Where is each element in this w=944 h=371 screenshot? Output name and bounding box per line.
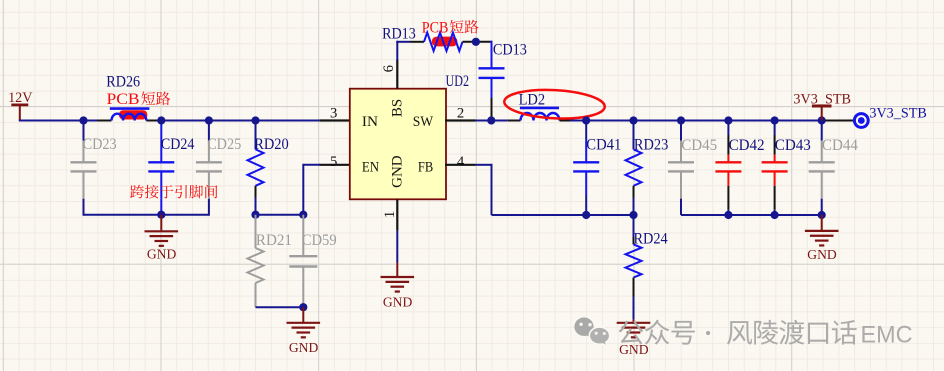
svg-text:CD43: CD43: [775, 137, 811, 154]
svg-text:PCB: PCB: [107, 91, 140, 108]
svg-text:3V3_STB: 3V3_STB: [793, 91, 851, 107]
svg-text:RD23: RD23: [634, 136, 669, 153]
svg-text:CD42: CD42: [729, 137, 765, 154]
svg-text:RD21: RD21: [256, 232, 292, 249]
svg-text:CD23: CD23: [83, 136, 117, 153]
svg-text:2: 2: [457, 106, 464, 122]
svg-text:GND: GND: [807, 247, 837, 262]
svg-text:GND: GND: [390, 155, 406, 188]
svg-text:GND: GND: [147, 247, 177, 262]
svg-text:CD25: CD25: [207, 136, 241, 153]
svg-text:3V3_STB: 3V3_STB: [869, 106, 926, 122]
svg-text:5: 5: [330, 154, 337, 170]
svg-text:3: 3: [330, 106, 337, 122]
svg-text:CD13: CD13: [493, 42, 527, 59]
svg-text:6: 6: [381, 65, 397, 72]
svg-text:CD59: CD59: [302, 232, 337, 249]
svg-text:BS: BS: [390, 99, 406, 117]
svg-text:GND: GND: [619, 342, 649, 357]
svg-text:PCB: PCB: [422, 19, 449, 36]
svg-text:1: 1: [382, 211, 398, 218]
svg-text:RD24: RD24: [634, 230, 668, 247]
svg-text:CD41: CD41: [586, 136, 621, 153]
svg-text:EMC: EMC: [861, 322, 913, 349]
svg-text:CD44: CD44: [822, 137, 858, 154]
svg-text:CD24: CD24: [161, 136, 195, 153]
svg-text:RD26: RD26: [106, 74, 140, 91]
svg-text:LD2: LD2: [519, 91, 546, 108]
svg-text:IN: IN: [362, 114, 378, 130]
svg-text:4: 4: [457, 154, 465, 170]
svg-text:UD2: UD2: [446, 73, 470, 90]
svg-text:EN: EN: [362, 160, 379, 176]
svg-text:12V: 12V: [8, 90, 33, 106]
svg-text:FB: FB: [418, 160, 433, 176]
svg-text:RD13: RD13: [382, 25, 416, 42]
svg-text:SW: SW: [413, 114, 434, 130]
svg-text:GND: GND: [383, 294, 413, 309]
svg-text:GND: GND: [289, 340, 319, 355]
svg-text:CD45: CD45: [681, 137, 717, 154]
